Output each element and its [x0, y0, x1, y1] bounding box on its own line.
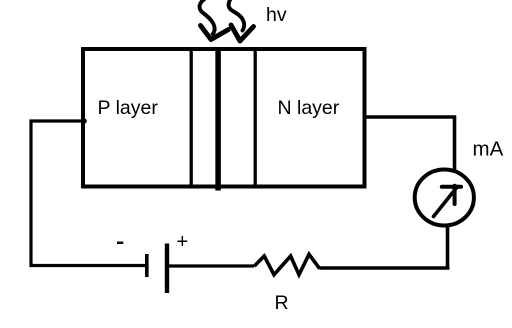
battery B1 positive terminal	[165, 244, 169, 294]
label minus	[117, 242, 123, 244]
resistor R zigzag	[254, 254, 320, 274]
svg-text:+: +	[177, 231, 189, 253]
photon arrow 2	[229, 0, 254, 41]
svg-text:P layer: P layer	[98, 97, 159, 119]
node at P layer terminal	[81, 118, 87, 124]
wire meter bottom vertical	[446, 224, 450, 268]
wire left vertical	[29, 120, 32, 268]
ammeter M1	[415, 170, 474, 226]
photodiode body U1	[83, 49, 365, 187]
svg-text:N layer: N layer	[278, 97, 340, 119]
svg-text:hv: hv	[266, 4, 287, 26]
battery B1 negative terminal	[145, 254, 149, 277]
wire resistor to meter	[320, 266, 450, 269]
wire bottom left to battery	[30, 264, 146, 267]
svg-text:R: R	[275, 292, 289, 314]
wire from P layer to left	[30, 119, 86, 122]
ammeter needle	[434, 186, 462, 217]
wire battery to resistor	[169, 264, 254, 267]
P region boundary line	[190, 48, 193, 187]
photon arrow 1	[200, 0, 229, 40]
wire N layer to meter	[364, 115, 456, 118]
junction depletion line	[215, 48, 221, 191]
N region boundary line	[254, 48, 257, 187]
wire meter top vertical	[453, 116, 457, 171]
svg-text:mA: mA	[473, 137, 504, 160]
